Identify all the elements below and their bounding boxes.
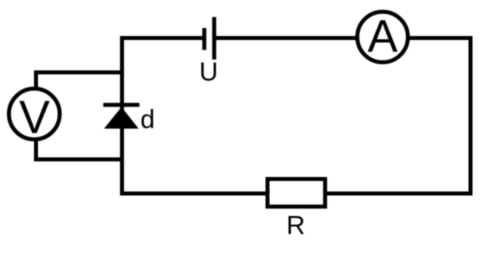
battery U [204, 17, 214, 60]
wire top segment: left corner to battery [122, 36, 203, 40]
resistor R [268, 179, 326, 207]
ammeter A [357, 10, 408, 62]
wire left vertical [120, 38, 124, 194]
diode d [103, 105, 139, 129]
svg-text:U: U [199, 57, 218, 87]
wire ammeter to top-right corner [410, 36, 471, 40]
wire right vertical [469, 38, 473, 194]
wire bottom segment: resistor to right corner [327, 192, 471, 196]
voltmeter V [9, 89, 60, 144]
wire bottom segment: left corner to resistor [122, 192, 266, 196]
svg-text:A: A [368, 10, 398, 61]
svg-text:V: V [19, 91, 50, 143]
wire voltmeter top branch [36, 72, 122, 89]
wire voltmeter bottom branch [36, 139, 122, 159]
wire battery to ammeter [216, 36, 356, 40]
svg-text:R: R [286, 210, 305, 240]
svg-text:d: d [140, 104, 154, 134]
